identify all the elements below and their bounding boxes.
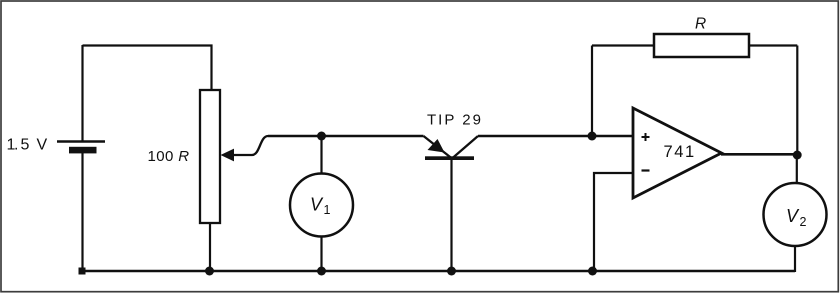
- resistor R body: [654, 34, 749, 57]
- potentiometer wiper wire with S-bend: [233, 136, 268, 155]
- node: output junction dot: [793, 151, 802, 160]
- node: feedback junction dot: [588, 132, 597, 141]
- transistor Q1 base lead wire: [450, 160, 452, 271]
- wire: top left loop battery to potentiometer: [83, 46, 212, 91]
- transistor Q1 emitter diagonal: [424, 136, 453, 159]
- node: V1 bottom junction dot: [317, 267, 326, 276]
- battery B1 1.5V : bottom lead wire: [81, 152, 83, 271]
- wire: feedback down to output node: [796, 46, 798, 156]
- potentiometer wiper arrowhead: [221, 149, 235, 162]
- wire: transistor collector to op-amp input: [478, 135, 633, 138]
- svg-text:100 R: 100 R: [148, 148, 190, 165]
- potentiometer bottom lead wire: [209, 223, 211, 271]
- svg-text:2: 2: [800, 215, 807, 229]
- svg-text:R: R: [695, 16, 706, 33]
- wire: top feedback left segment: [592, 44, 654, 46]
- wire: op-amp output: [721, 153, 797, 156]
- svg-text:741: 741: [664, 143, 696, 161]
- voltmeter V2 bottom lead wire: [794, 246, 796, 272]
- battery B1 positive plate: [57, 140, 105, 143]
- transistor Q1 base bar: [425, 156, 474, 160]
- svg-text:V: V: [310, 195, 324, 215]
- voltmeter V1 top lead wire: [320, 136, 322, 174]
- wire: junction up to feedback resistor: [591, 46, 593, 137]
- wire: top feedback right segment: [749, 44, 797, 46]
- svg-text:V: V: [786, 206, 800, 226]
- op-amp plus symbol: [642, 136, 650, 138]
- op-amp minus symbol: [642, 169, 650, 171]
- op-amp U1 741 triangle: [633, 108, 722, 198]
- voltmeter V1: [290, 174, 353, 237]
- node: inverting input ground dot: [588, 267, 597, 276]
- transistor Q1 emitter arrowhead: [428, 139, 445, 153]
- wire: op-amp inverting input: [594, 173, 633, 271]
- battery B1 negative plate: [69, 147, 97, 154]
- node: potentiometer ground dot: [205, 267, 214, 276]
- voltmeter V1 bottom lead wire: [320, 236, 322, 271]
- node: transistor base ground dot: [447, 267, 456, 276]
- wire: bottom ground rail: [82, 270, 795, 272]
- svg-text:TIP 29: TIP 29: [427, 112, 483, 129]
- voltmeter V2: [764, 183, 827, 246]
- wire: main signal wire wiper to transistor: [268, 135, 424, 138]
- voltmeter V2 top lead wire: [796, 155, 798, 184]
- potentiometer 100R body: [200, 90, 220, 223]
- svg-text:1: 1: [324, 203, 331, 217]
- battery B1 1.5V : top lead wire: [81, 45, 83, 141]
- svg-text:1.5 V: 1.5 V: [7, 137, 48, 154]
- node: battery ground corner dot: [79, 268, 86, 275]
- node: V1 top junction dot: [317, 132, 326, 141]
- transistor Q1 collector diagonal: [452, 136, 478, 159]
